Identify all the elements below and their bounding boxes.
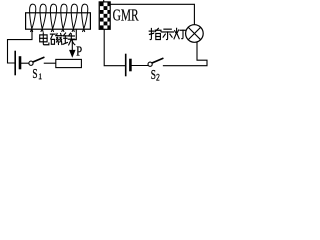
svg-text:S: S	[151, 68, 156, 83]
svg-text:GMR: GMR	[113, 6, 139, 25]
svg-text:P: P	[76, 45, 82, 60]
svg-text:S: S	[32, 67, 37, 82]
